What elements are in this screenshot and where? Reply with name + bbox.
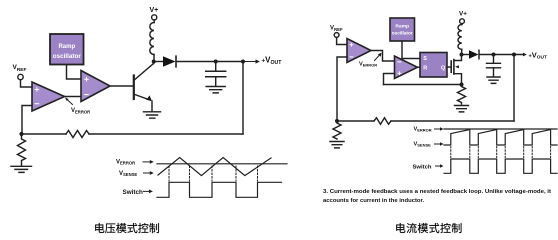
waveform label Switch (left) — [123, 189, 153, 196]
wire comparator output to latch R input — [418, 66, 421, 68]
node source junction — [460, 83, 464, 87]
svg-text:V+: V+ — [150, 7, 159, 14]
svg-text:VERROR: VERROR — [116, 159, 135, 165]
resistor R3 (to ground) — [333, 123, 341, 139]
transistor Q1 (NPN) — [134, 64, 154, 112]
waveform label VERROR (left) — [116, 159, 154, 165]
ground (R3) — [330, 142, 344, 148]
waveform label VSENSE (left) — [119, 171, 154, 177]
op-amp error amplifier U3 (right) — [347, 39, 371, 63]
caption 电压模式控制 (left) — [95, 223, 159, 233]
wire latch Q to MOSFET gate — [447, 66, 451, 68]
node B junction — [335, 119, 339, 123]
svg-text:S: S — [423, 56, 427, 62]
dotted crossover lines (right) — [451, 147, 551, 158]
waveform label Switch (right) — [413, 164, 444, 170]
waveform VERROR flat line (right) — [444, 128, 557, 130]
svg-text:R: R — [423, 65, 427, 71]
waveform VERROR flat line (left) — [157, 163, 287, 165]
wire diode to output — [177, 61, 244, 63]
label +VOUT (left) with arrow — [245, 56, 282, 66]
node capacitor junction — [214, 60, 218, 64]
node VREF (left) — [13, 64, 27, 80]
wire current sense line — [384, 84, 462, 86]
svg-text:VERROR: VERROR — [414, 126, 432, 132]
waveform label VSENSE (right) — [414, 141, 444, 147]
wire U3 minus to node B — [337, 57, 347, 119]
wire V+ to inductor — [153, 20, 155, 23]
svg-text:VERROR: VERROR — [71, 108, 90, 114]
inductor L1 — [150, 23, 154, 55]
inductor L2 — [458, 25, 462, 50]
transistor Q2 (MOSFET) — [451, 57, 461, 83]
capacitor C2 — [487, 55, 501, 77]
svg-text:3. Current-mode feedback uses: 3. Current-mode feedback uses a nested f… — [323, 189, 551, 195]
wire inductor to drain node — [461, 49, 463, 54]
wire V+ to inductor — [461, 23, 463, 26]
wire collector node up from Q1 — [153, 62, 155, 64]
ground (C2) — [487, 77, 500, 83]
dotted crossover lines (left) — [169, 166, 258, 181]
node VREF (right) — [330, 26, 343, 38]
node V+ (left) — [150, 7, 159, 20]
svg-text:Switch: Switch — [123, 189, 143, 196]
wire to diode — [464, 54, 470, 56]
node A junction — [19, 132, 23, 136]
S-R latch U5 — [420, 53, 447, 78]
diode D2 — [469, 50, 479, 58]
svg-text:VSENSE: VSENSE — [414, 141, 432, 147]
svg-text:V+: V+ — [459, 11, 467, 18]
waveform VSENSE triangle (left) — [158, 158, 271, 176]
ground (R1) — [11, 166, 32, 172]
ground (Q1 emitter) — [144, 112, 161, 118]
svg-text:Switch: Switch — [413, 165, 432, 171]
wire U2 output to Q1 base — [110, 85, 133, 87]
svg-text:VSENSE: VSENSE — [119, 171, 137, 177]
ramp oscillator box (left) — [50, 34, 84, 65]
wire U1 minus input down to node A — [22, 106, 32, 133]
node feedback junction — [512, 53, 516, 57]
op-amp comparator U2 (left) — [81, 71, 110, 102]
wire diode to +VOUT — [480, 54, 524, 56]
wire VREF to error amp — [337, 37, 347, 44]
svg-text:Ramp: Ramp — [395, 24, 409, 30]
waveform Switch square (right) — [444, 159, 557, 173]
svg-text:Ramp: Ramp — [58, 44, 75, 50]
resistor R5 (current sense) — [458, 87, 466, 105]
op-amp error amplifier U1 (left) — [32, 82, 65, 111]
waveform Switch square (left) — [157, 182, 282, 197]
node +VOUT junction — [241, 60, 245, 64]
svg-text:Q: Q — [441, 65, 446, 71]
node drain junction — [460, 53, 464, 57]
ground (R5) — [455, 106, 469, 112]
wire inductor to collector node — [153, 55, 155, 62]
resistor R4 (feedback) — [374, 118, 391, 124]
node collector junction — [152, 60, 156, 64]
wire feedback vertical (right) — [513, 55, 515, 122]
resistor R2 (feedback) — [66, 131, 89, 138]
wire R2 to output feedback — [89, 133, 243, 135]
svg-text:oscillator: oscillator — [392, 31, 413, 37]
resistor R1 (to ground) — [18, 136, 26, 166]
svg-text:VREF: VREF — [330, 26, 343, 33]
wire VREF to error amp + input — [21, 80, 33, 87]
wire U3 output to comparator - input — [371, 51, 395, 62]
wire ramp oscillator to comparator + input — [67, 65, 82, 79]
ground (C1) — [206, 87, 225, 93]
diode D1 — [163, 56, 176, 67]
svg-text:oscillator: oscillator — [53, 54, 82, 60]
label VERROR with arrow (right) — [359, 53, 382, 68]
figure caption (right) — [323, 189, 551, 204]
waveform VSENSE sawtooth (right) — [444, 130, 557, 146]
waveform label VERROR (right) — [414, 126, 444, 132]
wire R4 to feedback vertical — [391, 120, 514, 122]
wire node A to resistor R2 — [24, 133, 67, 135]
wire to diode — [156, 61, 163, 63]
label VERROR with arrow (left) — [65, 98, 90, 115]
wire U1 output to comparator - input — [65, 96, 82, 98]
wire comparator + input to current sense line — [384, 74, 395, 85]
capacitor C1 — [206, 62, 226, 87]
svg-text:VERROR: VERROR — [359, 62, 377, 68]
wire feedback vertical from +VOUT node — [242, 62, 244, 135]
node C2 junction — [492, 53, 496, 57]
svg-text:accounts for current in the in: accounts for current in the inductor. — [323, 198, 424, 204]
wire ramp oscillator to latch S input — [402, 41, 420, 59]
ramp oscillator box (right) — [390, 18, 415, 41]
node V+ (right) — [459, 11, 467, 24]
label +VOUT (right) with arrow — [523, 50, 547, 60]
caption 电流模式控制 (right) — [396, 223, 461, 233]
op-amp comparator U4 (right) — [395, 56, 418, 79]
wire node B to resistor R4 — [339, 120, 374, 122]
